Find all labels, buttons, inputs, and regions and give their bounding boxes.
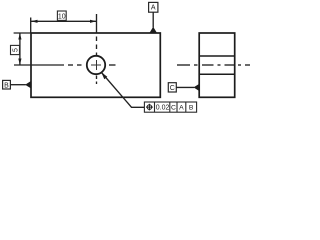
datum B symbol: frame [3, 80, 11, 89]
dimension 10: dimension line [31, 20, 97, 22]
hole circle [87, 56, 105, 74]
FCF position symbol [146, 104, 153, 111]
FCF cell divider 1 [154, 102, 156, 112]
svg-text:C: C [170, 85, 175, 92]
FCF cell divider 3 [176, 102, 178, 112]
FCF cell divider 4 [185, 102, 187, 112]
svg-text:B: B [189, 105, 194, 112]
dimension 5: dimension line [19, 33, 21, 65]
leader line from hole to feature control frame [102, 73, 145, 108]
dimension 5: bottom arrowhead [18, 59, 21, 66]
svg-text:B: B [4, 82, 9, 89]
datum A: filled triangle on top edge [149, 27, 157, 33]
datum C: stem [176, 86, 194, 88]
hole center mark cross [91, 60, 101, 70]
leader arrowhead at hole [101, 72, 107, 79]
vertical centerline of hole (extends up as witness for dim 10) [96, 14, 98, 84]
dimension 5: top witness line [14, 32, 31, 34]
dimension 10: basic dimension box [57, 11, 66, 20]
svg-text:0.02: 0.02 [156, 105, 170, 112]
dimension 10: left witness line [30, 18, 32, 34]
datum A symbol: frame [149, 2, 158, 12]
side view centerline [177, 64, 250, 66]
dimension 5: top arrowhead [18, 33, 21, 40]
side view hole edge line upper [199, 55, 235, 57]
dimension 10: left arrowhead [31, 20, 38, 23]
front view outline [31, 33, 160, 97]
datum C symbol: frame [168, 83, 176, 92]
side view outline [199, 33, 235, 97]
svg-text:10: 10 [58, 13, 66, 20]
side view hole edge line lower [199, 73, 235, 75]
dimension 10: right arrowhead [90, 20, 97, 23]
horizontal centerline of hole (extends left as witness for dim 5) [14, 64, 116, 66]
datum C: filled triangle on side view left edge [194, 84, 200, 91]
FCF cell divider 2 [169, 102, 171, 112]
feature control frame: outer box [144, 102, 196, 112]
datum B: stem [10, 84, 25, 86]
datum B: filled triangle on left edge [25, 81, 31, 89]
svg-text:C: C [171, 105, 176, 112]
svg-text:5: 5 [12, 48, 19, 52]
svg-text:A: A [151, 5, 156, 12]
dimension 5: basic dimension box [11, 45, 20, 54]
svg-text:A: A [179, 105, 184, 112]
datum A: stem [152, 12, 154, 27]
